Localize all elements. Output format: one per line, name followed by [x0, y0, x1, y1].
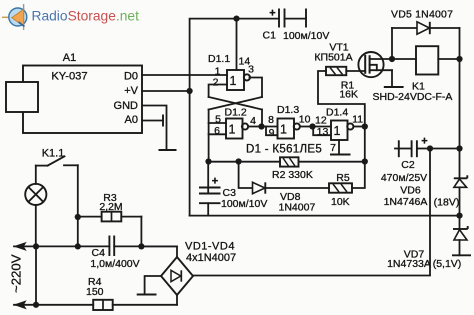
diode VD5 1N4007	[391, 9, 460, 35]
wire GND pin	[142, 106, 167, 150]
node pin4/pin8	[258, 123, 264, 129]
node C3	[205, 158, 211, 164]
wire D0 to D1.1 pin1	[142, 74, 227, 76]
svg-text:KY-037: KY-037	[51, 71, 87, 83]
capacitor C4 1,0м/400V	[90, 236, 177, 270]
wire cross diagonal A	[209, 97, 262, 110]
terminal bar A0	[162, 115, 164, 127]
svg-text:150: 150	[86, 286, 104, 298]
module A1 KY-037	[6, 52, 142, 133]
node lower	[33, 302, 39, 308]
svg-text:2: 2	[213, 77, 219, 89]
svg-text:1: 1	[229, 122, 236, 136]
svg-text:D1 - К561ЛЕ5: D1 - К561ЛЕ5	[246, 144, 322, 156]
wire bridge left corner to terminal	[145, 276, 161, 295]
transistor VT1 КП501А	[314, 42, 392, 78]
switch K1.1	[36, 148, 78, 166]
svg-text:8: 8	[268, 114, 274, 126]
node C4 right	[138, 243, 144, 249]
svg-text:4: 4	[250, 115, 256, 127]
wire pin 5 stub	[209, 122, 226, 124]
wire lamp down	[35, 205, 37, 246]
svg-text:D1.4: D1.4	[326, 107, 348, 119]
svg-text:VD5 1N4007: VD5 1N4007	[391, 9, 453, 21]
wire pin 9 jog	[266, 127, 278, 136]
wire C2 to right rail	[430, 148, 460, 150]
svg-text:~220V: ~220V	[9, 254, 24, 293]
node right rail C2	[456, 145, 462, 151]
svg-text:(18V): (18V)	[434, 197, 460, 209]
ground bar pin 7	[330, 154, 351, 156]
ground bar GND	[159, 149, 177, 151]
wire R5 right to rail	[352, 162, 365, 189]
svg-text:10: 10	[299, 114, 311, 126]
svg-text:13: 13	[317, 126, 329, 138]
wire bridge top corner	[141, 246, 177, 257]
resistor R3 2,2M	[78, 192, 142, 246]
mains upper wire	[14, 245, 109, 247]
wire switch to lamp	[35, 166, 37, 184]
node C4 left	[33, 243, 39, 249]
terminal bar bridge left	[137, 294, 157, 296]
svg-text:(5,1V): (5,1V)	[433, 258, 462, 270]
wire pin 2 input	[209, 85, 227, 98]
node top rail / pin14	[233, 16, 239, 22]
node VD8 branch	[236, 158, 242, 164]
wire bridge output plus	[193, 275, 430, 277]
gate D1.3	[268, 104, 311, 139]
svg-text:100м/10V: 100м/10V	[221, 198, 267, 210]
gate D1.2	[214, 107, 256, 139]
svg-text:A1: A1	[63, 52, 76, 64]
svg-text:C2: C2	[401, 159, 415, 171]
svg-text:5: 5	[215, 114, 221, 126]
node K1 right	[456, 56, 462, 62]
node R2/R5 right	[362, 158, 368, 164]
wire pin 14	[236, 19, 238, 70]
bottom rail	[190, 215, 460, 217]
wire +V to left rail	[142, 90, 190, 92]
wire lamp column to lower mains	[35, 246, 37, 304]
svg-text:6: 6	[214, 125, 220, 137]
wire pin 7	[338, 140, 340, 155]
diode VD8 1N4007	[239, 162, 329, 214]
svg-text:2,2M: 2,2M	[99, 201, 122, 213]
resistor R5 10K	[329, 172, 352, 208]
lamp	[25, 184, 46, 205]
wire feedback to R1	[318, 71, 365, 127]
svg-text:+: +	[269, 8, 275, 20]
zener VD6 1N4746A	[384, 149, 468, 216]
svg-text:SHD-24VDC-F-A: SHD-24VDC-F-A	[373, 91, 453, 103]
gate D1.4	[315, 107, 363, 141]
wire feedback to pin4 node	[261, 110, 263, 127]
svg-text:1N4733A: 1N4733A	[387, 258, 431, 270]
wire bridge bottom corner	[176, 295, 178, 305]
wire A0 pin	[142, 120, 163, 122]
svg-text:1N4746A: 1N4746A	[384, 196, 428, 208]
svg-text:GND: GND	[114, 100, 139, 112]
svg-text:+V: +V	[124, 85, 138, 97]
svg-text:7: 7	[330, 142, 336, 154]
svg-text:470м/25V: 470м/25V	[381, 172, 427, 184]
capacitor C1 100м/10V	[263, 8, 330, 42]
svg-text:R5: R5	[336, 172, 350, 184]
svg-text:R2 330K: R2 330K	[272, 169, 313, 181]
node +V rail	[187, 88, 193, 94]
svg-text:12: 12	[315, 115, 327, 127]
svg-text:1N4007: 1N4007	[279, 202, 316, 214]
mains lower wire	[14, 304, 93, 306]
wire pin 3 output	[250, 78, 263, 98]
svg-text:RadioStorage.net: RadioStorage.net	[32, 9, 140, 24]
svg-text:1: 1	[280, 122, 287, 136]
svg-text:VD1-VD4: VD1-VD4	[185, 241, 235, 253]
wire pin 6 stub	[209, 133, 226, 135]
wire left column to timing rail	[208, 110, 210, 162]
svg-text:D1.2: D1.2	[225, 107, 247, 119]
svg-text:11: 11	[352, 114, 363, 126]
node pin11	[362, 123, 368, 129]
bridge rectifier VD1-VD4	[161, 241, 236, 296]
svg-text:16K: 16K	[339, 89, 358, 101]
right rail	[459, 28, 461, 149]
wire pin 12 input	[313, 126, 332, 128]
arrow mains upper	[15, 243, 26, 250]
svg-text:D0: D0	[124, 71, 138, 83]
wire pin 11 output	[354, 126, 365, 128]
node K1.1 branch	[75, 243, 81, 249]
gate D1.1	[208, 53, 254, 90]
svg-text:D1.3: D1.3	[277, 104, 299, 116]
svg-text:D1.1: D1.1	[208, 53, 230, 65]
wire drain up	[391, 28, 393, 59]
wire R4 to bridge bottom	[113, 304, 177, 306]
node R3 left	[75, 214, 81, 220]
svg-text:4x1N4007: 4x1N4007	[186, 252, 236, 264]
wire K1.1 right column	[77, 165, 79, 246]
zener VD7 1N4733A	[387, 216, 471, 270]
wire pin 8 input	[262, 126, 278, 128]
resistor R4 150	[86, 276, 113, 310]
wire pin11 column	[364, 127, 366, 162]
svg-text:1: 1	[230, 74, 237, 88]
svg-text:VD6: VD6	[400, 185, 421, 197]
svg-text:9: 9	[269, 127, 275, 139]
svg-text:1,0м/400V: 1,0м/400V	[90, 258, 139, 270]
node bottom right	[456, 213, 462, 219]
svg-text:A0: A0	[125, 114, 138, 126]
svg-text:+: +	[212, 176, 218, 188]
wire cross diagonal B	[209, 97, 262, 110]
svg-text:+: +	[421, 136, 427, 148]
svg-text:3: 3	[248, 64, 254, 76]
svg-text:КП501А: КП501А	[314, 52, 352, 64]
arrow mains lower	[15, 301, 26, 308]
capacitor C3 100м/10V	[199, 162, 267, 216]
node drain	[389, 56, 395, 62]
svg-text:1: 1	[334, 124, 341, 138]
capacitor C2 470м/25V	[381, 136, 430, 184]
node pin10/pin12	[309, 123, 315, 129]
ground bar VT1 source	[384, 86, 404, 88]
left rail	[190, 19, 279, 216]
wire drain to K1	[392, 58, 416, 60]
timing rail	[209, 161, 281, 163]
logo icon (transistor symbol)	[2, 4, 27, 30]
wire pin 13 jog	[313, 127, 331, 136]
relay K1 SHD-24VDC-F-A	[373, 46, 460, 103]
wire source down	[391, 70, 393, 87]
svg-text:10K: 10K	[331, 196, 350, 208]
resistor R2 330K	[272, 157, 313, 181]
node C2	[427, 145, 433, 151]
svg-text:C1: C1	[263, 30, 277, 42]
svg-text:100м/10V: 100м/10V	[283, 30, 329, 42]
wire pin 4 output	[248, 126, 261, 128]
wire C2 node down to bridge output	[429, 149, 431, 275]
wire pin 10 output	[300, 126, 312, 128]
wire gate lead	[346, 70, 365, 72]
resistor R1 16K	[326, 67, 358, 101]
